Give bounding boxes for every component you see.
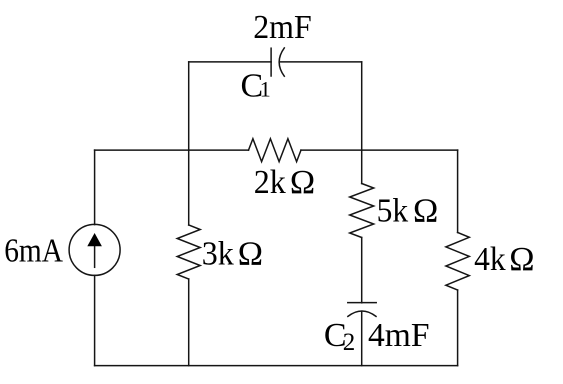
wire 5k branch to C2 top plate [361, 238, 363, 303]
svg-text:5k: 5k [377, 192, 409, 229]
svg-text:3k: 3k [202, 236, 234, 273]
wire right vertical of top loop [361, 62, 363, 150]
svg-text:2mF: 2mF [253, 9, 312, 46]
svg-text:C1: C1 [241, 67, 271, 104]
wire 4k branch upper [457, 150, 459, 232]
svg-text:Ω: Ω [238, 236, 263, 273]
svg-text:Ω: Ω [509, 241, 534, 278]
current source arrow stem [94, 245, 96, 267]
wire left vertical of top loop [188, 62, 190, 150]
svg-text:Ω: Ω [413, 192, 438, 229]
current source arrowhead [87, 233, 102, 246]
wire top rail left (node B up to C1 left plate) [189, 61, 271, 63]
wire 3k branch lower [188, 279, 190, 366]
svg-text:6mA: 6mA [4, 233, 63, 270]
resistor R3 5k zigzag [350, 184, 374, 238]
resistor R2 3k zigzag [177, 225, 200, 279]
wire middle rail right (R 2k to node D) [301, 149, 458, 151]
svg-text:4k: 4k [474, 241, 506, 278]
svg-text:C2: C2 [324, 317, 355, 356]
wire top rail right (C1 right plate to node C) [281, 61, 362, 63]
wire 5k branch upper [361, 150, 363, 183]
wire source branch lower [94, 275, 96, 365]
wire C2 bottom plate to bottom rail [361, 312, 363, 366]
capacitor C2 top plate [348, 302, 376, 304]
current source I1 circle [69, 224, 120, 275]
wire middle rail left (node A to R 2k) [95, 149, 249, 151]
capacitor C2 bottom plate (curved) [348, 311, 376, 316]
wire bottom rail [95, 365, 458, 367]
wire source branch upper [94, 150, 96, 225]
capacitor C1 left plate [270, 48, 272, 76]
svg-text:2k: 2k [254, 164, 286, 201]
resistor R1 2k zigzag [249, 139, 302, 162]
capacitor C1 right plate (curved) [279, 48, 284, 76]
wire 3k branch upper [188, 150, 190, 225]
svg-text:4mF: 4mF [368, 317, 430, 354]
svg-text:Ω: Ω [290, 164, 315, 201]
resistor R4 4k zigzag [446, 233, 469, 291]
wire 4k branch lower [457, 290, 459, 366]
